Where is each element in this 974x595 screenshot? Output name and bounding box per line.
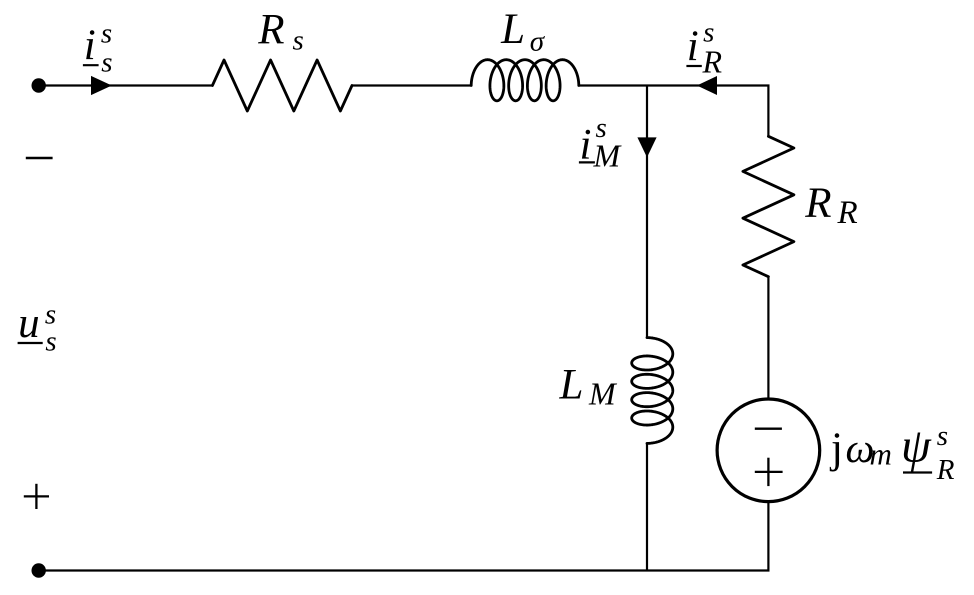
svg-text:j: j [829,425,843,472]
wire right vertical middle [767,277,769,400]
svg-text:m: m [870,437,892,472]
minus label (left, top) [26,157,53,160]
label j*omega_m*psi_R^s [829,420,955,486]
svg-text:i: i [687,23,699,70]
svg-text:L: L [500,6,525,53]
minus sign inside source [755,428,782,430]
label i_M^s [580,112,623,174]
current arrow i_R (points left) [697,76,717,95]
label i_s^s [84,18,113,79]
voltage source circle [717,399,820,502]
svg-text:σ: σ [530,25,546,57]
resistor R_R [743,136,794,276]
svg-text:R: R [702,43,723,79]
svg-text:u: u [18,300,39,347]
label R_s [257,6,303,56]
label L_M [559,361,619,411]
label L_sigma [500,6,546,57]
label u_s^s [18,298,57,357]
svg-text:s: s [293,24,304,56]
current arrow i_s (points right) [91,76,112,95]
wire between R_s and L_sigma [352,84,471,86]
svg-text:R: R [837,195,858,231]
inductor L_M [632,338,673,444]
svg-text:L: L [559,361,584,408]
svg-text:M: M [593,137,623,173]
svg-text:s: s [937,420,948,452]
wire middle vertical upper [646,86,648,338]
wire top-left segment [39,84,213,86]
svg-text:ψ: ψ [901,420,932,473]
svg-text:s: s [45,326,56,358]
terminal dot (top-left) [32,78,46,92]
svg-text:R: R [257,6,284,53]
wire top-right segment [579,86,769,137]
current arrow i_M (points down) [637,137,656,157]
wire right vertical lower [39,502,769,571]
inductor L_sigma [471,60,579,101]
plus sign inside source [755,471,783,473]
resistor R_s [212,60,352,111]
label R_R [804,180,857,231]
wire middle vertical lower [646,443,648,570]
svg-text:M: M [588,375,618,411]
svg-text:i: i [84,22,96,69]
svg-text:R: R [804,180,831,227]
svg-text:s: s [101,46,112,78]
plus label (left, bottom) [24,495,49,497]
svg-text:R: R [936,454,955,486]
svg-text:s: s [101,18,112,50]
label i_R^s [687,17,723,80]
terminal dot (bottom-left) [32,563,46,577]
